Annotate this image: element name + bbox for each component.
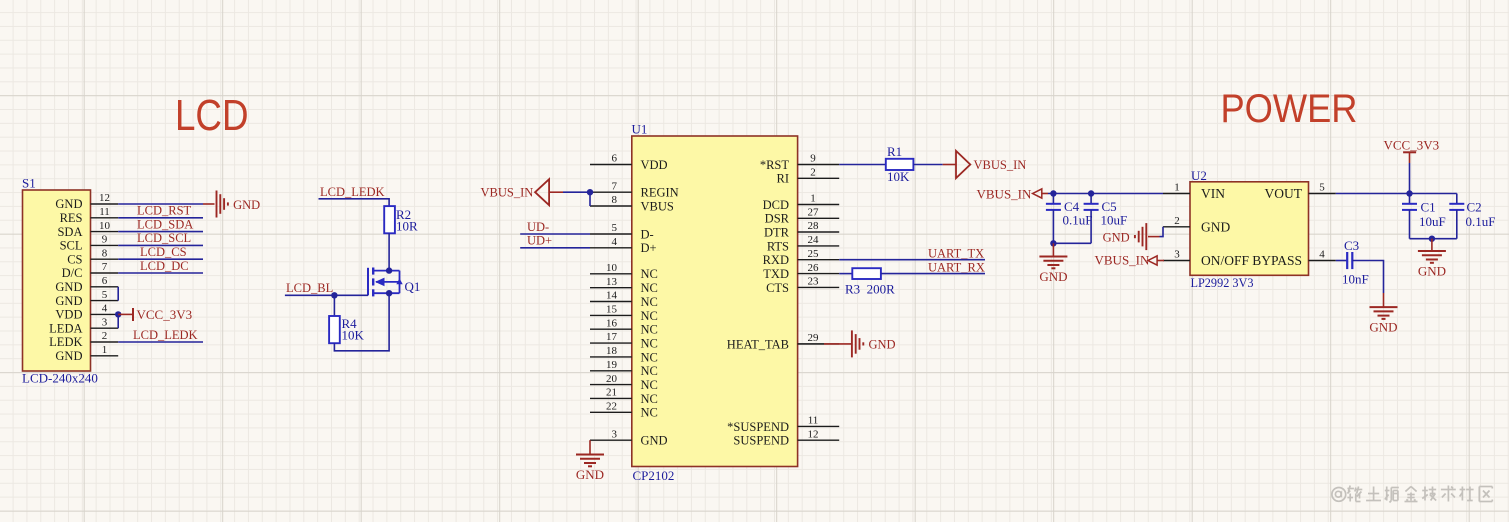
svg-text:POWER: POWER — [1221, 87, 1358, 131]
svg-text:27: 27 — [808, 207, 820, 219]
svg-text:CP2102: CP2102 — [633, 468, 675, 483]
svg-text:GND: GND — [641, 434, 668, 448]
svg-text:NC: NC — [641, 336, 658, 350]
U1 pin 9 (*RST) — [760, 153, 839, 172]
svg-text:RI: RI — [777, 172, 790, 186]
svg-text:NC: NC — [641, 350, 658, 364]
svg-text:1: 1 — [1174, 182, 1180, 194]
wire R3 to UART_RX — [881, 273, 985, 275]
svg-text:D/C: D/C — [62, 266, 83, 280]
svg-text:CTS: CTS — [766, 281, 789, 295]
wire VBUS_IN to REGIN — [563, 191, 590, 193]
svg-text:NC: NC — [641, 378, 658, 392]
svg-text:10uF: 10uF — [1101, 213, 1128, 228]
svg-text:GND: GND — [576, 467, 604, 482]
svg-text:6: 6 — [102, 275, 108, 287]
S1 pin 11 (RES) — [60, 206, 119, 225]
svg-text:19: 19 — [606, 359, 618, 371]
U2 pin 3 — [1163, 249, 1190, 261]
svg-text:R3 200R: R3 200R — [845, 282, 895, 297]
svg-text:LCD_SCL: LCD_SCL — [137, 231, 191, 245]
wire VBUS_IN lead (ON/OFF) — [1157, 260, 1164, 262]
U2 pin 5 — [1309, 182, 1336, 194]
wire S1 pin12 to GND — [118, 203, 203, 205]
svg-text:GND: GND — [55, 197, 82, 211]
S1 pin 2 (LEDK) — [49, 330, 118, 349]
U1 pin 16 (NC) — [590, 317, 658, 336]
svg-text:3: 3 — [102, 316, 108, 328]
wire net LCD_CS — [118, 258, 203, 260]
wire net UART_TX — [839, 259, 985, 261]
wire U1 GND down — [589, 440, 591, 454]
svg-text:22: 22 — [606, 401, 617, 413]
svg-text:3: 3 — [1174, 249, 1180, 261]
wire net UD- — [520, 233, 590, 235]
svg-text:UART_RX: UART_RX — [928, 260, 985, 274]
svg-text:10nF: 10nF — [1342, 271, 1369, 286]
S1 pin 10 (SDA) — [57, 220, 118, 239]
wire net LCD_LEDK (S1 pin2) — [118, 341, 203, 343]
svg-text:17: 17 — [606, 331, 618, 343]
U1 pin 8 (VBUS) — [590, 194, 674, 213]
svg-text:LCD_LEDK: LCD_LEDK — [133, 328, 198, 342]
svg-text:VOUT: VOUT — [1265, 186, 1303, 201]
wire VBUS_IN lead (VIN) — [1041, 193, 1048, 195]
U2 pin 1 — [1163, 182, 1190, 194]
svg-text:28: 28 — [808, 220, 820, 232]
svg-text:LEDA: LEDA — [49, 321, 82, 335]
resistor R1 — [886, 159, 914, 170]
svg-text:14: 14 — [606, 290, 618, 302]
U1 pin 18 (NC) — [590, 345, 658, 364]
svg-text:DSR: DSR — [765, 212, 790, 226]
svg-text:26: 26 — [808, 262, 820, 274]
svg-text:GND: GND — [55, 294, 82, 308]
wire C1-C2 bottoms — [1410, 238, 1457, 240]
svg-text:1: 1 — [810, 193, 816, 205]
svg-text:LP2992 3V3: LP2992 3V3 — [1191, 275, 1254, 290]
S1 pin 7 (D/C) — [62, 261, 119, 280]
wire C3 to ground — [1352, 261, 1383, 294]
svg-text:GND: GND — [869, 338, 896, 352]
U2 pin 2 — [1163, 215, 1190, 227]
svg-text:5: 5 — [1319, 182, 1325, 194]
svg-text:2: 2 — [810, 167, 816, 179]
svg-text:8: 8 — [102, 247, 108, 259]
svg-text:D-: D- — [641, 227, 654, 241]
wire GND lead (HEAT_TAB) — [824, 343, 852, 345]
capacitor C5 — [1084, 194, 1099, 244]
U1 pin 2 (RI) — [777, 167, 840, 186]
U2 pin 4 — [1309, 249, 1336, 261]
svg-text:NC: NC — [641, 406, 658, 420]
wire S1 pins 6-5 join — [117, 287, 119, 301]
svg-text:NC: NC — [641, 267, 658, 281]
svg-text:VBUS: VBUS — [641, 199, 674, 213]
wire U2 GND elbow — [1160, 227, 1164, 237]
svg-text:4: 4 — [102, 303, 108, 315]
U1 pin 17 (NC) — [590, 331, 658, 350]
ground (C4/C5) — [1039, 257, 1067, 285]
svg-text:20: 20 — [606, 373, 618, 385]
capacitor C2 — [1449, 194, 1464, 239]
watermark — [1332, 486, 1492, 503]
wire REGIN to VBUS pin — [589, 192, 591, 206]
svg-text:VBUS_IN: VBUS_IN — [1095, 253, 1151, 268]
junction C5 — [1088, 190, 1094, 196]
U1 pin 22 (NC) — [590, 401, 658, 420]
S1 pin 1 (GND) — [55, 344, 118, 363]
S1 pin 5 (GND) — [55, 289, 118, 308]
svg-text:4: 4 — [612, 236, 618, 248]
wire net LCD_DC — [118, 272, 203, 274]
wire GND lead (U2 pin2) — [1148, 236, 1160, 238]
ground (C3) — [1369, 307, 1397, 335]
svg-text:U1: U1 — [632, 122, 648, 137]
wire C4-C5 bottoms — [1053, 242, 1091, 244]
svg-text:HEAT_TAB: HEAT_TAB — [727, 337, 789, 351]
power port arrow VBUS_IN — [535, 179, 549, 205]
svg-text:R1: R1 — [887, 144, 902, 159]
junction LCD_BL/R4 — [331, 292, 337, 298]
wire net LCD_SDA — [118, 231, 203, 233]
ground (U1 pin3) — [576, 455, 604, 483]
svg-text:GND: GND — [1369, 320, 1397, 335]
IC U2 body — [1190, 182, 1309, 275]
svg-text:NC: NC — [641, 295, 658, 309]
wire net LCD_SCL — [118, 244, 203, 246]
S1 pin 3 (LEDA) — [49, 316, 118, 335]
svg-text:UART_TX: UART_TX — [928, 246, 984, 260]
U1 pin 20 (NC) — [590, 373, 658, 392]
svg-text:GND: GND — [1418, 264, 1446, 279]
svg-text:VBUS_IN: VBUS_IN — [977, 187, 1033, 202]
svg-text:1: 1 — [102, 344, 108, 356]
svg-text:GND: GND — [1201, 220, 1230, 235]
power ground GND (HEAT_TAB) — [852, 330, 896, 357]
wire TXD to R3 — [839, 273, 852, 275]
S1 pin 6 (GND) — [55, 275, 118, 294]
junction VOUT/C1 — [1406, 190, 1412, 196]
wire R2 to Q1 drain — [388, 233, 390, 270]
wire VBUS_IN lead — [549, 191, 563, 193]
power port arrow VBUS_IN (ON/OFF) — [1148, 256, 1157, 265]
svg-text:7: 7 — [102, 261, 108, 273]
svg-text:TXD: TXD — [763, 267, 789, 281]
wire VCC_3V3 lead — [118, 313, 133, 315]
IC U1 body — [632, 136, 798, 467]
junction C1/C2 ground — [1429, 236, 1435, 242]
svg-text:RXD: RXD — [763, 253, 789, 267]
U1 pin 19 (NC) — [590, 359, 658, 378]
svg-text:18: 18 — [606, 345, 618, 357]
U1 pin 11 (*SUSPEND) — [727, 415, 839, 434]
U1 pin 4 (D+) — [590, 236, 657, 255]
svg-text:LCD: LCD — [175, 92, 249, 140]
svg-text:3: 3 — [612, 428, 618, 440]
svg-text:5: 5 — [102, 289, 108, 301]
junction Q1 drain — [386, 267, 392, 273]
wire net UD+ — [520, 247, 590, 249]
U1 pin 29 (HEAT_TAB) — [727, 332, 839, 351]
U1 pin 23 (CTS) — [766, 276, 839, 295]
svg-text:2: 2 — [1174, 215, 1180, 227]
wire up to VCC_3V3 — [1409, 163, 1411, 194]
U1 pin 1 (DCD) — [763, 193, 840, 212]
wire HEAT_TAB stub — [798, 343, 824, 345]
svg-text:10: 10 — [99, 220, 111, 232]
svg-text:DTR: DTR — [764, 225, 790, 239]
wire R4 to Q1 source — [334, 293, 389, 351]
svg-text:BYPASS: BYPASS — [1252, 253, 1302, 268]
U1 pin 14 (NC) — [590, 290, 658, 309]
svg-text:9: 9 — [810, 153, 816, 165]
svg-text:24: 24 — [808, 234, 820, 246]
svg-text:LCD_SDA: LCD_SDA — [137, 217, 193, 231]
svg-text:REGIN: REGIN — [641, 186, 679, 200]
svg-text:4: 4 — [1319, 249, 1325, 261]
svg-text:29: 29 — [808, 332, 820, 344]
U1 pin 27 (DSR) — [765, 207, 840, 226]
svg-text:0.1uF: 0.1uF — [1466, 214, 1496, 229]
svg-text:VBUS_IN: VBUS_IN — [481, 185, 534, 199]
svg-text:LCD_DC: LCD_DC — [140, 259, 189, 273]
svg-text:25: 25 — [808, 248, 820, 260]
svg-text:U2: U2 — [1191, 168, 1207, 183]
svg-text:Q1: Q1 — [405, 279, 421, 294]
U1 pin 13 (NC) — [590, 276, 658, 295]
svg-text:ON/OFF: ON/OFF — [1201, 253, 1250, 268]
svg-text:*SUSPEND: *SUSPEND — [727, 420, 789, 434]
svg-text:C2: C2 — [1467, 200, 1482, 215]
U1 pin 7 (REGIN) — [590, 180, 679, 199]
power port arrow VBUS_IN (R1) — [956, 151, 970, 178]
U1 pin 25 (RXD) — [763, 248, 840, 267]
power ground GND (S1 pin12) — [217, 191, 261, 218]
svg-text:0.1uF: 0.1uF — [1063, 213, 1093, 228]
svg-text:SDA: SDA — [57, 225, 82, 239]
junction C4 — [1050, 190, 1056, 196]
svg-text:8: 8 — [612, 194, 618, 206]
wire VBUS_IN to VIN — [1048, 193, 1163, 195]
U1 pin 15 (NC) — [590, 304, 658, 323]
svg-text:RES: RES — [60, 211, 83, 225]
svg-text:10: 10 — [606, 262, 618, 274]
svg-text:LCD_CS: LCD_CS — [140, 245, 187, 259]
svg-text:GND: GND — [1039, 269, 1067, 284]
svg-text:13: 13 — [606, 276, 618, 288]
svg-text:10K: 10K — [887, 169, 910, 184]
svg-text:12: 12 — [99, 192, 110, 204]
svg-text:23: 23 — [808, 276, 820, 288]
svg-text:10R: 10R — [396, 218, 418, 233]
U1 pin 5 (D-) — [590, 222, 654, 241]
wire VCC_3V3 lead — [1409, 152, 1411, 164]
svg-text:16: 16 — [606, 317, 618, 329]
svg-text:NC: NC — [641, 323, 658, 337]
svg-text:CS: CS — [67, 252, 82, 266]
svg-text:UD-: UD- — [527, 220, 549, 234]
junction C4 bottom — [1050, 240, 1056, 246]
U1 pin 26 (TXD) — [763, 262, 839, 281]
svg-text:S1: S1 — [22, 176, 36, 191]
svg-text:*RST: *RST — [760, 158, 790, 172]
svg-text:12: 12 — [808, 428, 819, 440]
S1 pin 12 (GND) — [55, 192, 118, 211]
svg-text:C1: C1 — [1421, 200, 1436, 215]
svg-text:SUSPEND: SUSPEND — [733, 434, 789, 448]
wire to R4 — [333, 295, 335, 316]
power ground GND (U2 pin2) — [1103, 223, 1147, 250]
resistor R4 — [329, 316, 340, 343]
svg-text:VDD: VDD — [55, 308, 82, 322]
wire S1 pins 4-3 join — [117, 314, 119, 328]
svg-text:LEDK: LEDK — [49, 335, 82, 349]
svg-text:2: 2 — [102, 330, 108, 342]
wire to ground (C1/C2) — [1431, 239, 1433, 251]
svg-text:GND: GND — [233, 198, 260, 212]
wire GND lead — [203, 203, 215, 205]
svg-text:VDD: VDD — [641, 158, 668, 172]
wire VBUS_IN lead (R1) — [943, 164, 956, 166]
svg-text:11: 11 — [808, 415, 819, 427]
svg-text:LCD_RST: LCD_RST — [137, 204, 192, 218]
svg-text:21: 21 — [606, 387, 617, 399]
S1 pin 4 (VDD) — [55, 303, 118, 322]
capacitor C3 — [1347, 252, 1352, 269]
svg-text:UD+: UD+ — [527, 234, 552, 248]
svg-text:VCC_3V3: VCC_3V3 — [1384, 137, 1440, 152]
capacitor C1 — [1402, 194, 1417, 239]
svg-text:NC: NC — [641, 281, 658, 295]
wire to ground (C4) — [1052, 243, 1054, 256]
svg-text:6: 6 — [612, 153, 618, 165]
S1 pin 9 (SCL) — [60, 234, 119, 253]
U1 pin 10 (NC) — [590, 262, 658, 281]
junction REGIN/VBUS — [587, 189, 593, 195]
svg-text:SCL: SCL — [60, 239, 83, 253]
svg-text:LCD-240x240: LCD-240x240 — [22, 371, 98, 386]
svg-text:LCD_LEDK: LCD_LEDK — [320, 185, 385, 199]
svg-text:NC: NC — [641, 309, 658, 323]
U1 pin 3 (GND) — [590, 428, 668, 447]
U1 pin 12 (SUSPEND) — [733, 428, 839, 447]
wire net LCD_RST — [118, 217, 203, 219]
capacitor C4 — [1046, 194, 1061, 244]
U1 pin 6 (VDD) — [590, 153, 668, 172]
resistor R3 — [852, 268, 881, 279]
U1 pin 21 (NC) — [590, 387, 658, 406]
svg-text:LCD_BL: LCD_BL — [286, 281, 333, 295]
svg-text:5: 5 — [612, 222, 618, 234]
svg-text:DCD: DCD — [763, 198, 789, 212]
svg-text:NC: NC — [641, 364, 658, 378]
svg-text:RTS: RTS — [767, 239, 789, 253]
svg-text:GND: GND — [55, 349, 82, 363]
svg-text:VBUS_IN: VBUS_IN — [974, 158, 1027, 172]
power port VCC_3V3 (bar) — [1403, 151, 1416, 153]
svg-text:15: 15 — [606, 304, 618, 316]
svg-text:11: 11 — [99, 206, 110, 218]
wire LCD_BL to gate — [285, 294, 368, 296]
wire LCD_LEDK to R2 — [319, 199, 390, 206]
transistor Q1 (N-MOSFET) — [368, 268, 403, 297]
wire ground lead (C3) — [1383, 293, 1385, 307]
junction S1 pin4 — [115, 311, 121, 317]
svg-text:NC: NC — [641, 392, 658, 406]
wire R1 to VBUS_IN — [913, 164, 942, 166]
svg-text:D+: D+ — [641, 241, 657, 255]
U1 pin 28 (DTR) — [764, 220, 839, 239]
svg-text:GND: GND — [1103, 230, 1130, 244]
power port arrow VBUS_IN (VIN) — [1033, 189, 1042, 198]
wire BYPASS to C3 — [1336, 260, 1347, 262]
svg-text:10K: 10K — [342, 328, 365, 343]
power port VCC_3V3 (bar) — [132, 308, 134, 321]
svg-text:VIN: VIN — [1201, 186, 1225, 201]
svg-text:C3: C3 — [1344, 238, 1359, 253]
svg-text:9: 9 — [102, 234, 108, 246]
svg-text:VCC_3V3: VCC_3V3 — [137, 307, 193, 322]
svg-text:10uF: 10uF — [1419, 214, 1446, 229]
ground (C1/C2) — [1418, 251, 1446, 279]
connector S1 body — [23, 190, 91, 371]
resistor R2 — [384, 206, 395, 233]
junction Q1 source — [386, 290, 392, 296]
svg-text:GND: GND — [55, 280, 82, 294]
U1 pin 24 (RTS) — [767, 234, 839, 253]
wire *RST to R1 — [839, 164, 886, 166]
svg-text:7: 7 — [612, 180, 618, 192]
S1 pin 8 (CS) — [67, 247, 118, 266]
wire VOUT to C1/C2 — [1336, 193, 1457, 195]
